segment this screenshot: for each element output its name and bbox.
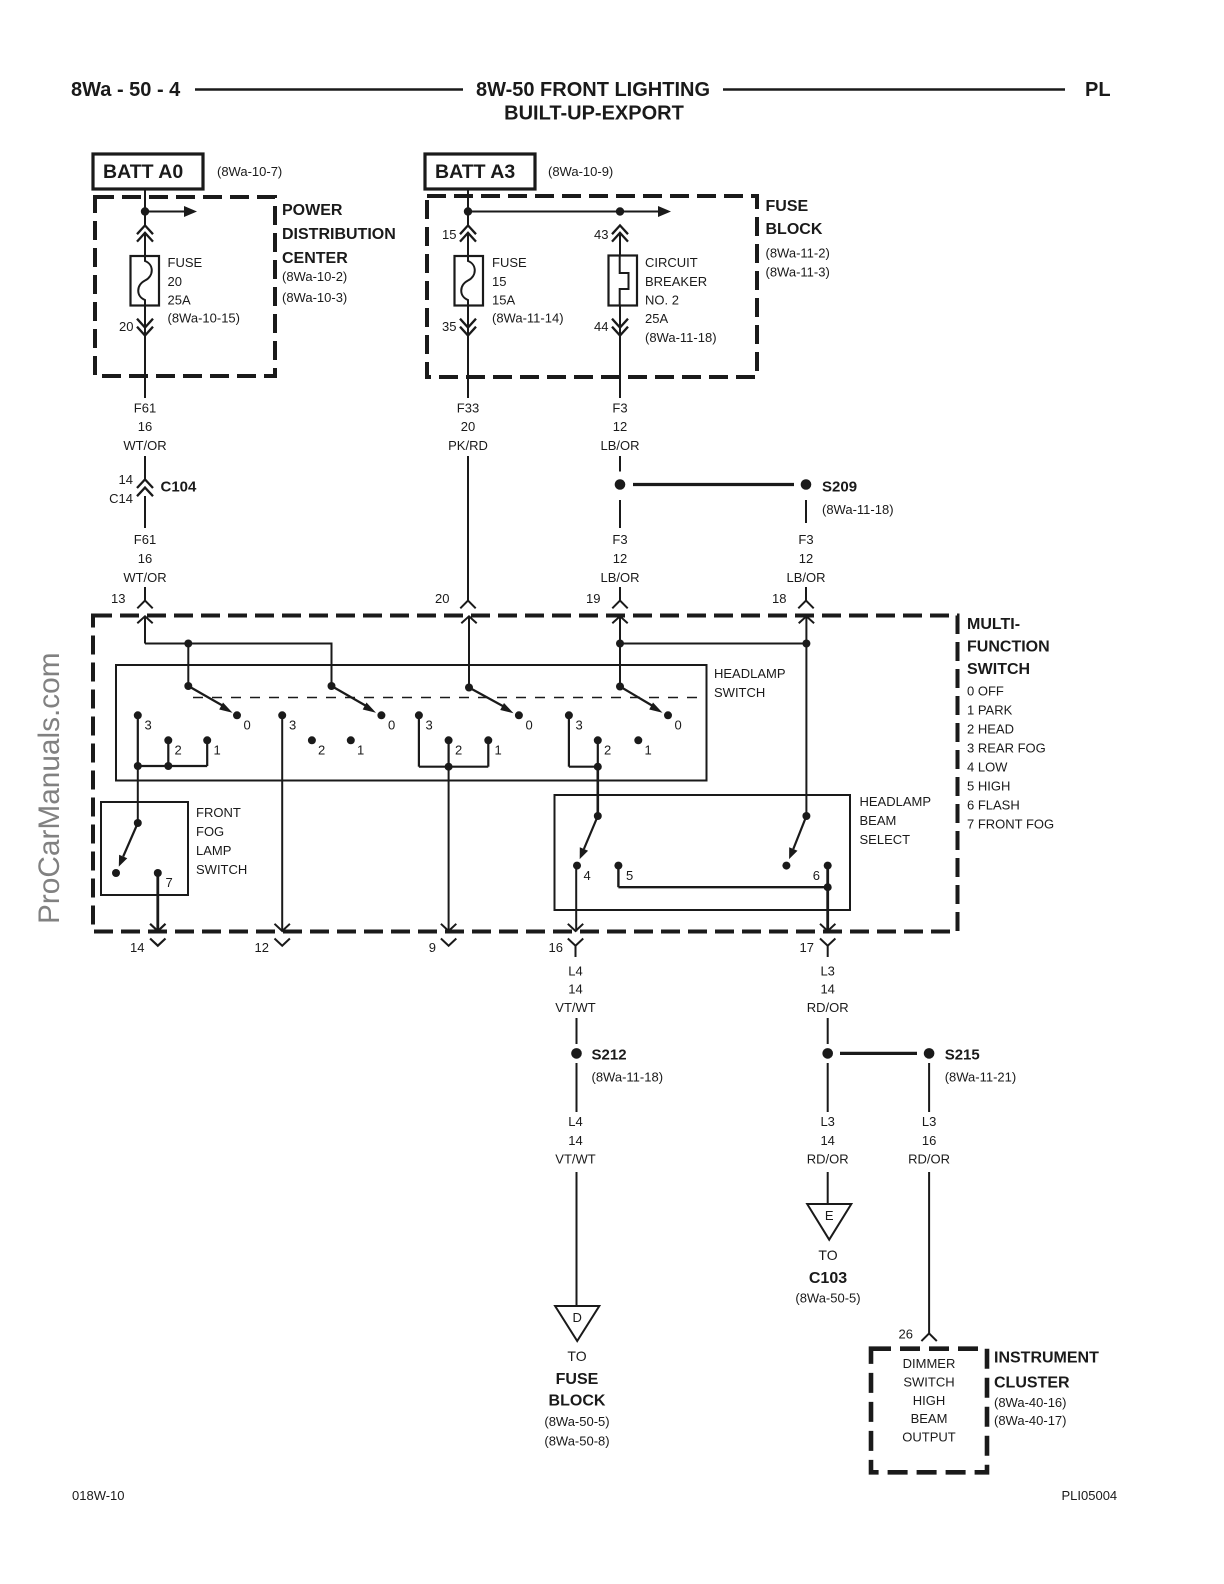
svg-text:RD/OR: RD/OR xyxy=(908,1152,950,1167)
wire F33 long run xyxy=(467,456,469,601)
gang 4 contact 1 xyxy=(634,736,642,744)
gang 4 bus junction dot xyxy=(594,763,602,771)
svg-text:20: 20 xyxy=(461,419,475,434)
svg-text:14: 14 xyxy=(568,982,582,997)
svg-text:6 FLASH: 6 FLASH xyxy=(967,798,1020,813)
svg-text:TO: TO xyxy=(567,1348,586,1364)
svg-text:(8Wa-50-5): (8Wa-50-5) xyxy=(795,1291,860,1306)
gang 2 blade xyxy=(332,686,369,707)
pin 20 entry arrow inside xyxy=(461,616,476,687)
svg-text:16: 16 xyxy=(922,1133,936,1148)
wire 13 feed to pivots 1-2 xyxy=(145,644,332,687)
wire 14 exit arrow xyxy=(150,924,165,931)
gang 2 pivot xyxy=(328,682,336,690)
wire F3 to splice xyxy=(619,456,621,472)
svg-text:LB/OR: LB/OR xyxy=(786,570,825,585)
label TO C103 xyxy=(795,1247,860,1306)
svg-text:CLUSTER: CLUSTER xyxy=(994,1375,1070,1392)
svg-text:2: 2 xyxy=(318,743,325,758)
switch gang dashed link line xyxy=(193,697,705,699)
wire label F3 12 LB/OR upper xyxy=(600,401,639,454)
svg-text:L3: L3 xyxy=(820,964,834,979)
svg-text:LB/OR: LB/OR xyxy=(600,570,639,585)
svg-text:14: 14 xyxy=(820,982,834,997)
wire to S215 xyxy=(827,1018,829,1044)
svg-text:(8Wa-11-18): (8Wa-11-18) xyxy=(822,502,894,517)
fog switch contact open xyxy=(112,869,120,877)
wire fuse to cavity 20 xyxy=(144,306,146,399)
junction dot breaker feed xyxy=(616,207,624,215)
junction dot wire 19 xyxy=(616,640,624,648)
svg-text:(8Wa-11-18): (8Wa-11-18) xyxy=(645,330,717,345)
splice dot left xyxy=(615,479,626,490)
fuse block dashed box xyxy=(427,196,757,377)
svg-text:(8Wa-11-2): (8Wa-11-2) xyxy=(766,246,830,261)
beam contact open xyxy=(782,862,790,870)
svg-text:4 LOW: 4 LOW xyxy=(967,760,1008,775)
beam select pivot low xyxy=(594,812,602,820)
svg-text:17: 17 xyxy=(800,940,814,955)
wire 9 exit arrow xyxy=(441,924,456,931)
gang 3 contact 2 xyxy=(445,736,453,744)
svg-text:VT/WT: VT/WT xyxy=(555,1152,595,1167)
svg-text:RD/OR: RD/OR xyxy=(807,1000,849,1015)
svg-text:FUSE: FUSE xyxy=(168,255,203,270)
wire below C104 xyxy=(144,496,146,528)
wire S215 right down xyxy=(928,1063,930,1112)
pin 19 entry arrow inside xyxy=(612,616,627,686)
svg-text:L4: L4 xyxy=(568,1114,582,1129)
wire to breaker xyxy=(619,233,621,256)
label POWER DISTRIBUTION CENTER xyxy=(282,202,396,305)
svg-text:VT/WT: VT/WT xyxy=(555,1000,595,1015)
svg-text:HEADLAMP: HEADLAMP xyxy=(714,666,786,681)
svg-text:CENTER: CENTER xyxy=(282,250,348,267)
gang 1 contact 3 xyxy=(134,711,142,719)
svg-text:F61: F61 xyxy=(134,532,156,547)
gang 4 pivot xyxy=(616,683,624,691)
wire label F3 12 LB/OR right xyxy=(786,532,825,585)
wire chevron to fuse xyxy=(144,233,146,256)
svg-text:2: 2 xyxy=(604,743,611,758)
instrument cluster dashed box xyxy=(871,1349,987,1473)
label DIMMER SWITCH HIGH BEAM OUTPUT xyxy=(902,1356,956,1445)
svg-text:(8Wa-11-14): (8Wa-11-14) xyxy=(492,311,564,326)
splice dot left xyxy=(822,1048,833,1059)
wire label F3 12 LB/OR mid xyxy=(600,532,639,585)
svg-text:POWER: POWER xyxy=(282,202,343,219)
svg-text:(8Wa-50-8): (8Wa-50-8) xyxy=(544,1434,609,1449)
wire junction to pivot 1 xyxy=(187,644,189,687)
splice S209 tie line xyxy=(633,483,794,486)
svg-text:OUTPUT: OUTPUT xyxy=(902,1430,956,1445)
label FUSE 15 15A xyxy=(492,255,564,326)
svg-text:TO: TO xyxy=(818,1247,837,1263)
gang 2 contact 3 xyxy=(278,711,286,719)
label HEADLAMP SWITCH xyxy=(714,666,786,700)
wire label L3 14 RD/OR lower xyxy=(807,1114,849,1167)
svg-text:L3: L3 xyxy=(922,1114,936,1129)
gang 1 blade xyxy=(188,686,225,707)
wire to fuse 15 xyxy=(467,233,469,256)
junction dot feed pivot 1 xyxy=(184,640,192,648)
wire label L4 14 VT/WT upper xyxy=(555,964,595,1016)
svg-text:F33: F33 xyxy=(457,401,479,416)
label CIRCUIT BREAKER NO. 2 25A xyxy=(645,255,717,345)
gang 3 blade xyxy=(469,688,506,708)
connector half below pin 17 xyxy=(820,939,835,946)
svg-text:26: 26 xyxy=(899,1327,913,1342)
svg-text:FRONT: FRONT xyxy=(196,805,241,820)
svg-text:F3: F3 xyxy=(612,401,627,416)
label FRONT FOG LAMP SWITCH xyxy=(196,805,247,877)
svg-text:F61: F61 xyxy=(134,401,156,416)
wire 16 stub below xyxy=(575,946,577,957)
svg-text:BLOCK: BLOCK xyxy=(766,221,823,238)
connector chevrons above fuse 20 xyxy=(137,225,153,241)
svg-text:14: 14 xyxy=(820,1133,834,1148)
beam bus wiring xyxy=(618,866,827,932)
svg-text:6: 6 xyxy=(813,868,820,883)
wire run to triangle E xyxy=(827,1172,829,1204)
beam contact 4 xyxy=(573,862,581,870)
connector half above pin 20 xyxy=(460,601,475,609)
svg-text:BATT A3: BATT A3 xyxy=(435,161,515,183)
connector half above pin 13 xyxy=(137,601,152,609)
wire into MFS pin 13 xyxy=(144,587,146,601)
wire into MFS pin 18 xyxy=(805,587,807,601)
svg-text:0: 0 xyxy=(388,718,395,733)
wire breaker down xyxy=(619,306,621,399)
svg-text:BUILT-UP-EXPORT: BUILT-UP-EXPORT xyxy=(504,103,684,125)
connector chevrons below breaker xyxy=(612,319,628,336)
connector half below pin 16 xyxy=(568,939,583,946)
svg-text:8Wa - 50 - 4: 8Wa - 50 - 4 xyxy=(71,79,181,101)
wire 14 run xyxy=(156,873,159,932)
bus wire to breaker and arrow xyxy=(468,211,659,213)
wire run to instrument cluster xyxy=(928,1172,930,1333)
beam select blade low xyxy=(584,816,598,849)
wire into MFS pin 19 xyxy=(619,587,621,601)
svg-text:5 HIGH: 5 HIGH xyxy=(967,779,1010,794)
svg-text:1: 1 xyxy=(645,743,652,758)
svg-text:(8Wa-10-3): (8Wa-10-3) xyxy=(282,290,347,305)
svg-text:L3: L3 xyxy=(820,1114,834,1129)
svg-text:2: 2 xyxy=(175,743,182,758)
wire 19 tie to wire 18 xyxy=(620,643,806,645)
gang 3 bus junction dot xyxy=(445,763,453,771)
label INSTRUMENT CLUSTER xyxy=(994,1350,1099,1429)
power distribution center dashed box xyxy=(95,197,275,376)
legend switch positions xyxy=(967,684,1054,832)
beam select pivot high xyxy=(802,812,810,820)
wire gang4 to beam select xyxy=(596,767,599,816)
svg-text:7: 7 xyxy=(166,875,173,890)
header rule right xyxy=(723,88,1065,91)
gang 1 contact 1 xyxy=(203,736,211,744)
wire feed arrow right xyxy=(145,211,185,213)
svg-text:C14: C14 xyxy=(109,491,133,506)
splice dot S209 xyxy=(801,479,812,490)
gang 4 bus wiring xyxy=(569,715,598,766)
wire label L3 14 RD/OR upper xyxy=(807,964,849,1016)
gang 3 bus wiring xyxy=(419,715,488,766)
svg-text:S209: S209 xyxy=(822,479,857,496)
connector half above cluster xyxy=(921,1333,936,1341)
gang 3 pivot xyxy=(465,684,473,692)
svg-text:FUSE: FUSE xyxy=(766,198,809,215)
beam bus junction dot xyxy=(824,883,832,891)
svg-text:19: 19 xyxy=(586,591,600,606)
svg-text:BLOCK: BLOCK xyxy=(549,1393,606,1410)
svg-text:15: 15 xyxy=(442,227,456,242)
svg-text:SWITCH: SWITCH xyxy=(714,685,765,700)
svg-text:CIRCUIT: CIRCUIT xyxy=(645,255,698,270)
svg-text:2: 2 xyxy=(455,743,462,758)
svg-text:ProCarManuals.com: ProCarManuals.com xyxy=(33,652,66,924)
wire run to triangle D xyxy=(576,1172,578,1306)
gang 4 blade xyxy=(620,687,655,708)
svg-text:D: D xyxy=(573,1310,582,1325)
wire fuse 15 down xyxy=(467,306,469,399)
wire gang1 to fog switch xyxy=(137,766,139,823)
svg-text:SWITCH: SWITCH xyxy=(903,1375,954,1390)
gang 4 contact 2 xyxy=(594,736,602,744)
gang 3 contact 3 xyxy=(415,711,423,719)
svg-text:BREAKER: BREAKER xyxy=(645,274,707,289)
connector chevrons below fuse 15 xyxy=(460,319,476,336)
wire 17 stub below xyxy=(827,946,829,957)
fog switch blade xyxy=(123,823,138,857)
svg-text:1 PARK: 1 PARK xyxy=(967,703,1013,718)
svg-text:2 HEAD: 2 HEAD xyxy=(967,722,1014,737)
svg-text:F3: F3 xyxy=(798,532,813,547)
svg-text:BATT A0: BATT A0 xyxy=(103,161,183,183)
gang 1 contact 0 xyxy=(233,711,241,719)
svg-text:HIGH: HIGH xyxy=(913,1393,946,1408)
svg-text:C103: C103 xyxy=(809,1270,847,1287)
gang 3 contact 0 xyxy=(515,711,523,719)
svg-text:0: 0 xyxy=(526,718,533,733)
pin 13 entry arrow inside xyxy=(137,616,152,643)
connector half above pin 19 xyxy=(612,601,627,609)
svg-text:(8Wa-11-18): (8Wa-11-18) xyxy=(592,1070,664,1085)
splice dot S212 xyxy=(571,1048,582,1059)
wire label F61 16 WT/OR upper xyxy=(123,401,166,454)
svg-text:SWITCH: SWITCH xyxy=(967,661,1030,678)
svg-text:FOG: FOG xyxy=(196,824,224,839)
svg-text:PL: PL xyxy=(1085,79,1111,101)
gang 1 bus wiring xyxy=(138,715,207,766)
svg-text:PLI05004: PLI05004 xyxy=(1062,1488,1118,1503)
off-page connector E xyxy=(807,1204,851,1240)
svg-text:25A: 25A xyxy=(168,293,191,308)
svg-text:C104: C104 xyxy=(161,479,198,496)
svg-text:16: 16 xyxy=(138,419,152,434)
svg-text:SWITCH: SWITCH xyxy=(196,862,247,877)
svg-text:E: E xyxy=(825,1208,834,1223)
wire label L4 14 VT/WT lower xyxy=(555,1114,595,1167)
wire 12 exit arrow xyxy=(275,924,290,931)
fuse 15 symbol xyxy=(455,256,484,306)
wire 16 exit arrow xyxy=(568,924,583,931)
gang 1 bus junction dots xyxy=(134,762,142,770)
svg-text:44: 44 xyxy=(594,319,608,334)
gang 1 contact 2 xyxy=(164,736,172,744)
connector C104 chevrons xyxy=(137,479,153,496)
gang 4 contact 3 xyxy=(565,711,573,719)
wire 9 run xyxy=(448,767,450,932)
connector half below pin 12 xyxy=(275,939,290,946)
connector box BATT A3 xyxy=(425,154,535,189)
connector chevrons below fuse 20 xyxy=(137,319,153,336)
wire to S212 xyxy=(576,1018,578,1044)
svg-text:SELECT: SELECT xyxy=(860,832,911,847)
splice dot S215 xyxy=(924,1048,935,1059)
svg-text:3: 3 xyxy=(289,718,296,733)
svg-text:(8Wa-10-2): (8Wa-10-2) xyxy=(282,269,347,284)
svg-text:20: 20 xyxy=(435,591,449,606)
svg-text:(8Wa-10-15): (8Wa-10-15) xyxy=(168,311,240,326)
wire S215 left down xyxy=(827,1063,829,1112)
svg-text:1: 1 xyxy=(495,743,502,758)
svg-text:INSTRUMENT: INSTRUMENT xyxy=(994,1350,1099,1367)
svg-text:MULTI-: MULTI- xyxy=(967,616,1020,633)
svg-text:14: 14 xyxy=(568,1133,582,1148)
connector half above pin 18 xyxy=(798,601,813,609)
beam contact 6 xyxy=(824,862,832,870)
connector chevrons above breaker xyxy=(612,225,628,241)
svg-text:LB/OR: LB/OR xyxy=(600,438,639,453)
junction dot wire 18 xyxy=(802,640,810,648)
svg-text:35: 35 xyxy=(442,319,456,334)
junction dot A3 xyxy=(464,207,472,215)
wire 12 run xyxy=(281,715,283,931)
svg-text:12: 12 xyxy=(799,551,813,566)
wire label L3 16 RD/OR xyxy=(908,1114,950,1167)
svg-text:15A: 15A xyxy=(492,293,515,308)
svg-text:(8Wa-10-9): (8Wa-10-9) xyxy=(548,164,613,179)
pin 18 entry arrow inside xyxy=(799,616,814,816)
wire to C104 xyxy=(144,456,146,480)
svg-text:4: 4 xyxy=(584,868,591,883)
svg-text:18: 18 xyxy=(772,591,786,606)
svg-text:FUSE: FUSE xyxy=(556,1371,599,1388)
beam select blade high xyxy=(793,816,806,849)
svg-text:1: 1 xyxy=(357,743,364,758)
junction dot A0 xyxy=(141,207,149,215)
gang 1 pivot xyxy=(184,682,192,690)
svg-text:14: 14 xyxy=(119,472,133,487)
svg-text:3: 3 xyxy=(145,718,152,733)
gang 4 contact 0 xyxy=(664,711,672,719)
svg-text:L4: L4 xyxy=(568,964,582,979)
wire BATT A0 to fuse xyxy=(144,189,146,226)
svg-text:20: 20 xyxy=(168,274,182,289)
headlamp beam select box xyxy=(555,795,851,910)
svg-text:DIMMER: DIMMER xyxy=(903,1356,956,1371)
svg-text:1: 1 xyxy=(214,743,221,758)
svg-text:(8Wa-40-17): (8Wa-40-17) xyxy=(994,1413,1066,1428)
svg-text:3: 3 xyxy=(426,718,433,733)
splice S215 tie line xyxy=(840,1052,917,1055)
svg-text:0: 0 xyxy=(675,718,682,733)
svg-text:12: 12 xyxy=(255,940,269,955)
wire label F61 16 WT/OR lower xyxy=(123,532,166,585)
fog switch contact 7 xyxy=(154,869,162,877)
svg-text:8W-50 FRONT LIGHTING: 8W-50 FRONT LIGHTING xyxy=(476,79,710,101)
connector half below pin 14 xyxy=(150,939,165,946)
label FUSE BLOCK xyxy=(766,198,830,280)
svg-text:FUNCTION: FUNCTION xyxy=(967,639,1050,656)
fog switch pivot xyxy=(134,819,142,827)
gang 2 contact 2 xyxy=(308,736,316,744)
svg-text:25A: 25A xyxy=(645,311,668,326)
svg-text:S212: S212 xyxy=(592,1047,627,1064)
svg-text:BEAM: BEAM xyxy=(860,813,897,828)
multi-function switch dashed box xyxy=(93,616,958,932)
svg-text:7 FRONT FOG: 7 FRONT FOG xyxy=(967,817,1054,832)
svg-text:WT/OR: WT/OR xyxy=(123,438,166,453)
off-page connector D xyxy=(555,1306,599,1341)
gang 3 contact 1 xyxy=(484,736,492,744)
header rule left xyxy=(195,88,463,91)
label MULTI-FUNCTION SWITCH xyxy=(967,616,1050,678)
svg-text:018W-10: 018W-10 xyxy=(72,1488,125,1503)
svg-text:12: 12 xyxy=(613,551,627,566)
label FUSE 20 25A xyxy=(168,255,240,326)
label TO FUSE BLOCK xyxy=(544,1348,609,1449)
svg-text:12: 12 xyxy=(613,419,627,434)
svg-text:WT/OR: WT/OR xyxy=(123,570,166,585)
svg-text:3: 3 xyxy=(576,718,583,733)
wire 16 run xyxy=(575,866,577,932)
connector half below pin 9 xyxy=(441,939,456,946)
gang 2 contact 0 xyxy=(377,711,385,719)
svg-text:FUSE: FUSE xyxy=(492,255,527,270)
svg-text:HEADLAMP: HEADLAMP xyxy=(860,794,932,809)
svg-text:0: 0 xyxy=(244,718,251,733)
svg-text:(8Wa-11-21): (8Wa-11-21) xyxy=(945,1070,1017,1085)
svg-text:(8Wa-40-16): (8Wa-40-16) xyxy=(994,1395,1066,1410)
svg-text:(8Wa-11-3): (8Wa-11-3) xyxy=(766,265,830,280)
label HEADLAMP BEAM SELECT xyxy=(860,794,932,847)
svg-text:BEAM: BEAM xyxy=(911,1411,948,1426)
connector chevrons above fuse 15 xyxy=(460,225,476,241)
svg-text:RD/OR: RD/OR xyxy=(807,1152,849,1167)
svg-text:0 OFF: 0 OFF xyxy=(967,684,1004,699)
svg-text:43: 43 xyxy=(594,227,608,242)
svg-text:NO. 2: NO. 2 xyxy=(645,293,679,308)
svg-text:3 REAR FOG: 3 REAR FOG xyxy=(967,741,1046,756)
svg-text:5: 5 xyxy=(626,868,633,883)
svg-text:S215: S215 xyxy=(945,1047,980,1064)
circuit breaker no.2 symbol xyxy=(609,256,638,306)
svg-text:(8Wa-50-5): (8Wa-50-5) xyxy=(544,1414,609,1429)
wire S209 down xyxy=(805,500,807,523)
svg-text:(8Wa-10-7): (8Wa-10-7) xyxy=(217,164,282,179)
svg-text:14: 14 xyxy=(130,940,144,955)
connector box BATT A0 xyxy=(93,154,203,189)
svg-text:9: 9 xyxy=(429,940,436,955)
svg-text:DISTRIBUTION: DISTRIBUTION xyxy=(282,226,396,243)
svg-text:16: 16 xyxy=(138,551,152,566)
front fog lamp switch box xyxy=(101,802,188,895)
wire BATT A3 down xyxy=(467,189,469,226)
wire label F33 20 PK/RD xyxy=(448,401,488,454)
beam contact 5 xyxy=(614,862,622,870)
headlamp switch box xyxy=(116,665,707,781)
